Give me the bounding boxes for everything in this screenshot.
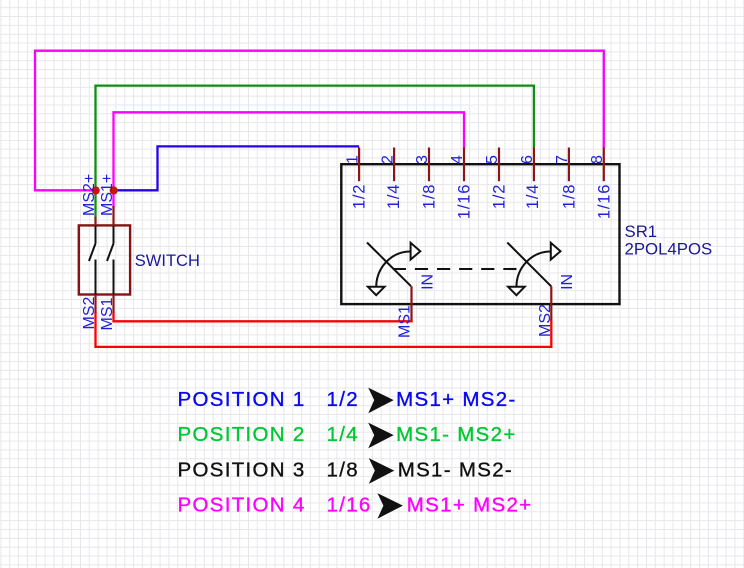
legend row POSITION 1: [178, 388, 517, 411]
dashed link between poles: [393, 268, 517, 270]
switch pole 2 contacts and blade: [107, 226, 114, 295]
legend arrow row 1: [368, 388, 394, 414]
switch pin bottom left: [94, 295, 96, 313]
svg-text:1/4: 1/4: [385, 184, 403, 209]
wire blue net to pin 1 (1/2): [114, 146, 360, 190]
svg-text:1/4: 1/4: [327, 423, 359, 446]
SR1 pin 8: [603, 148, 605, 182]
svg-text:MS2: MS2: [81, 297, 98, 330]
svg-text:1/2: 1/2: [351, 184, 369, 209]
legend arrow row 3: [369, 458, 395, 484]
svg-text:1/2: 1/2: [491, 184, 509, 209]
svg-text:MS1- MS2-: MS1- MS2-: [398, 459, 513, 482]
svg-text:MS1: MS1: [397, 305, 414, 338]
switch pole 1 contacts and blade: [89, 226, 96, 295]
legend row POSITION 4: [178, 494, 533, 517]
wire red MS2 from switch to SR1 MS2 pin: [96, 312, 552, 347]
SR1 rotary pole 2 blade: [507, 243, 551, 287]
svg-text:IN: IN: [559, 274, 576, 290]
SR1 rotary pole 1 arrowhead right: [411, 243, 421, 260]
SR1 pin 5: [498, 148, 500, 182]
svg-text:MS1: MS1: [99, 298, 116, 331]
svg-text:2POL4POS: 2POL4POS: [625, 240, 713, 259]
svg-text:POSITION 1: POSITION 1: [178, 388, 306, 411]
legend row POSITION 2: [178, 423, 517, 446]
junction dot node MS2+: [92, 186, 100, 194]
svg-text:1/16: 1/16: [456, 184, 474, 219]
legend row POSITION 3: [178, 459, 514, 482]
svg-text:4: 4: [449, 155, 466, 164]
svg-text:POSITION 3: POSITION 3: [178, 459, 306, 482]
SR1 rotary pole 1 arrowhead down: [368, 287, 385, 295]
wire red MS1 from switch to SR1 MS1 pin: [114, 312, 412, 321]
svg-text:SR1: SR1: [625, 222, 658, 241]
svg-text:8: 8: [589, 155, 606, 164]
legend arrow row 4: [377, 493, 403, 519]
svg-text:SWITCH: SWITCH: [135, 252, 200, 270]
svg-text:MS1- MS2+: MS1- MS2+: [396, 423, 516, 446]
SR1 pin 4: [463, 148, 465, 182]
SR1 pin 2: [393, 148, 395, 182]
SR1 pin MS2 stub: [550, 287, 552, 321]
svg-text:1/16: 1/16: [595, 184, 613, 219]
svg-text:MS1+ MS2-: MS1+ MS2-: [396, 388, 516, 411]
switch SW1 body: [79, 225, 130, 294]
svg-text:IN: IN: [419, 274, 436, 290]
junction dot node MS1+: [110, 186, 118, 194]
SR1 pin 1: [358, 148, 360, 182]
svg-text:1/4: 1/4: [524, 184, 542, 209]
switch pin top left: [94, 217, 96, 226]
svg-text:1/16: 1/16: [327, 494, 372, 517]
wire green net to pin 6 (1/4): [96, 86, 534, 218]
wire magenta net MS2+ to pin 8 (1/16): [35, 51, 604, 191]
svg-text:3: 3: [414, 155, 431, 164]
svg-text:MS2+: MS2+: [81, 174, 98, 216]
svg-text:7: 7: [554, 155, 571, 164]
svg-text:1: 1: [344, 155, 361, 164]
svg-text:1/8: 1/8: [327, 459, 359, 482]
svg-text:1/8: 1/8: [421, 184, 439, 209]
SR1 rotary pole 1 arc arrow: [376, 252, 410, 288]
svg-text:MS2: MS2: [537, 304, 554, 337]
svg-text:1/8: 1/8: [561, 184, 579, 209]
SR1 rotary pole 2 arc arrow: [516, 252, 550, 288]
svg-text:5: 5: [484, 155, 501, 164]
SR1 rotary pole 2 arrowhead right: [551, 243, 561, 260]
SR1 pin 7: [568, 148, 570, 182]
svg-text:6: 6: [519, 155, 536, 164]
svg-text:POSITION 2: POSITION 2: [178, 423, 306, 446]
SR1 rotary pole 2 arrowhead down: [508, 287, 525, 295]
SR1 pin 3: [428, 148, 430, 182]
svg-text:1/2: 1/2: [327, 388, 359, 411]
SR1 pin MS1 stub: [410, 286, 412, 320]
switch pin top right: [112, 206, 114, 226]
SR1 pin 6: [533, 148, 535, 182]
svg-text:MS1+ MS2+: MS1+ MS2+: [407, 494, 533, 517]
wire magenta inner net MS1+ to pin 4 (1/16): [114, 112, 465, 207]
rotary switch SR1 body: [341, 164, 619, 304]
svg-text:POSITION 4: POSITION 4: [178, 494, 306, 517]
switch pin bottom right: [112, 295, 114, 313]
SR1 rotary pole 1 blade: [367, 243, 411, 287]
svg-text:2: 2: [379, 155, 396, 164]
legend arrow row 2: [368, 423, 394, 449]
